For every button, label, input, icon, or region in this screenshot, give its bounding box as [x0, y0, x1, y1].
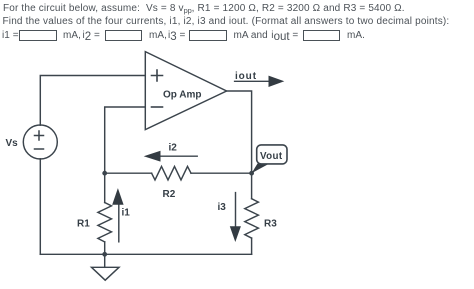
answer input box i3 — [189, 30, 227, 41]
wire R3 to bottom rail — [251, 238, 253, 254]
node ground junction dot — [102, 252, 107, 257]
answer input box i2 — [105, 30, 142, 41]
svg-text:R3: R3 — [264, 218, 277, 229]
voltage source Vs — [23, 125, 57, 159]
wire op-amp output to Vout node — [227, 91, 252, 173]
wire op-amp inverting input to node A — [105, 107, 146, 173]
answer row: mA, i3 label — [149, 30, 167, 42]
current arrow iout — [235, 76, 285, 87]
node Vout junction dot — [249, 171, 254, 176]
label R3 — [264, 218, 277, 229]
label R1 — [77, 218, 90, 229]
problem text line 2 — [3, 16, 450, 28]
answer row: i1 label — [2, 30, 19, 42]
current arrow i2 — [144, 151, 198, 162]
wire Vs(+) to op-amp non-inverting input — [40, 76, 145, 126]
label i2 — [169, 142, 178, 153]
svg-text:R2: R2 — [163, 189, 176, 200]
label R2 — [163, 189, 176, 200]
resistor R2 — [152, 166, 191, 180]
answer row: mA and iout label — [234, 30, 268, 42]
resistor R1 — [98, 203, 112, 242]
label Vs — [6, 138, 19, 149]
current arrow i3 — [230, 193, 241, 242]
label iout — [235, 71, 257, 82]
svg-text:Vs: Vs — [6, 138, 19, 149]
op-amp U1 inverting input marker — [152, 106, 163, 108]
wire Vout node to R3 — [251, 173, 253, 199]
ground — [92, 254, 120, 280]
svg-text:i2: i2 — [169, 142, 178, 153]
svg-text:iout: iout — [235, 71, 257, 82]
answer input box iout — [303, 30, 340, 41]
svg-text:Op Amp: Op Amp — [163, 89, 202, 100]
wire Vs(-) to bottom rail — [39, 159, 41, 255]
label Op Amp — [163, 89, 202, 100]
node A junction dot — [102, 171, 107, 176]
answer row: i2 label — [83, 30, 100, 42]
answer row: iout label — [271, 30, 298, 42]
op-amp U1 non-inverting input marker — [152, 70, 163, 81]
wire R2 to Vout node — [191, 172, 252, 174]
current arrow i1 — [112, 188, 123, 242]
svg-text:Vout: Vout — [260, 151, 283, 162]
answer row: mA, i2 label — [63, 30, 81, 42]
label i3 — [218, 202, 227, 213]
Vout callout — [252, 145, 287, 173]
resistor R3 — [245, 199, 259, 238]
svg-text:i3: i3 — [218, 202, 227, 213]
problem text line 1 — [3, 3, 405, 15]
wire node A to R2 — [105, 172, 152, 174]
answer input box i1 — [19, 30, 57, 41]
label i1 — [122, 208, 131, 219]
wire R1 to ground rail — [104, 242, 106, 254]
op-amp U1 — [145, 52, 226, 130]
wire node A to R1 — [104, 173, 106, 202]
answer row: i3 label — [168, 30, 185, 42]
answer row: trailing mA. — [347, 30, 365, 42]
svg-text:R1: R1 — [77, 218, 90, 229]
wire bottom rail — [40, 253, 251, 255]
svg-text:i1: i1 — [122, 208, 131, 219]
